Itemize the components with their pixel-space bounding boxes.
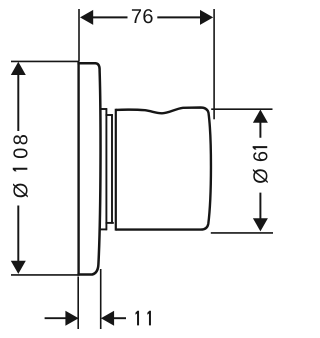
arrow 61 bottom	[253, 218, 268, 231]
knob body outline (wavy top, bulged right face, bottom)	[116, 108, 211, 230]
sleeve top tick (A to B)	[105, 114, 112, 116]
dimension line 61	[259, 122, 261, 219]
label diameter 108	[13, 135, 28, 198]
escutcheon plate outline (top edge, front face, bottom edge)	[77, 63, 100, 274]
extension line knob top (for 61)	[211, 108, 272, 110]
dimension line 108	[17, 74, 19, 262]
arrow 11 right (pointing left)	[101, 311, 114, 326]
dimension line 76	[93, 16, 201, 18]
arrow 11 left (pointing right)	[65, 311, 78, 326]
dimension leader 11 left	[45, 317, 66, 319]
sleeve bottom tick (A to B)	[105, 222, 113, 224]
label 11	[135, 311, 151, 326]
extension line knob bottom (for 61)	[211, 232, 273, 234]
extension line top (plate top, for 108)	[11, 60, 79, 62]
dimension leader 11 right	[113, 317, 126, 319]
arrow 61 top	[253, 110, 268, 123]
extension line bottom-right (for 11)	[100, 269, 102, 329]
extension line bottom (plate bottom, for 108)	[11, 274, 79, 276]
label 76	[132, 9, 153, 23]
sleeve line B	[111, 114, 113, 223]
arrow 76 right	[200, 10, 213, 25]
extension line left (wall face, for 76)	[78, 9, 80, 62]
knob left face	[115, 109, 117, 231]
extension line bottom-left (for 11)	[77, 277, 79, 330]
arrow 76 left	[80, 10, 93, 25]
collar step tick top (plate to ring)	[100, 108, 107, 110]
escutcheon plate back face	[77, 62, 79, 275]
arrow 108 bottom	[11, 261, 26, 274]
collar step tick bottom (plate to ring)	[100, 228, 107, 230]
arrow 108 top	[11, 62, 26, 75]
collar ring line A	[105, 108, 107, 230]
extension line right (knob front, for 76)	[213, 9, 215, 119]
label diameter 61	[253, 146, 268, 183]
